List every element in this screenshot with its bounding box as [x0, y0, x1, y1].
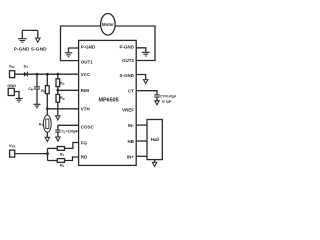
resistor R2 to RD [48, 157, 79, 168]
node junction VEX [46, 152, 49, 155]
ground S-GND arrow [136, 75, 148, 84]
terminal GND [7, 83, 22, 102]
svg-text:C1=100pF: C1=100pF [61, 130, 78, 135]
svg-text:RD: RD [81, 155, 88, 160]
ground right P-GND pin [136, 48, 150, 56]
svg-text:P-GND: P-GND [120, 44, 135, 49]
svg-text:VCC: VCC [81, 72, 91, 77]
Hall sensor block [147, 120, 162, 167]
svg-text:RB: RB [60, 96, 65, 101]
node junction on rail x37 [36, 73, 39, 76]
svg-text:FG: FG [81, 140, 88, 145]
svg-text:to 1μF: to 1μF [162, 100, 172, 104]
wire IN- to Hall [136, 124, 147, 126]
ground left P-GND pin [65, 48, 79, 57]
svg-text:OUT2: OUT2 [122, 58, 134, 63]
op-amp U1 MP6505 IC body [79, 40, 137, 165]
wire motor to OUT1 [61, 26, 101, 61]
node junction on rail x57.8 [56, 73, 59, 76]
svg-text:COSC: COSC [81, 125, 95, 130]
svg-text:GND: GND [7, 83, 16, 88]
svg-text:R2: R2 [60, 163, 65, 168]
diode D1 [24, 64, 29, 77]
svg-text:D1: D1 [24, 64, 29, 70]
wire VTH line [47, 108, 78, 110]
capacitor C1 on COSC [55, 125, 78, 141]
capacitor CT [136, 91, 176, 105]
resistor RB [56, 94, 65, 120]
svg-text:MP6505: MP6505 [99, 97, 119, 103]
resistor RM (VCC to VTH) [41, 74, 49, 109]
wire HB to Hall [136, 140, 147, 142]
wire riser FG/RD [47, 148, 49, 160]
wire VEX to resistors [15, 153, 48, 155]
svg-text:Hall: Hall [151, 137, 159, 142]
svg-text:IN-: IN- [128, 123, 135, 128]
wire VIN rail [15, 73, 79, 75]
resistor RA [56, 74, 65, 94]
node junction on rail x47.3 [46, 73, 49, 76]
wire motor to OUT2 [115, 26, 155, 61]
wire RMI line [58, 89, 79, 91]
terminal VEX [9, 143, 16, 157]
resistor R1 to FG [48, 143, 79, 158]
svg-text:VREF: VREF [122, 108, 134, 113]
svg-text:RA: RA [60, 81, 65, 86]
svg-text:VTH: VTH [81, 106, 90, 111]
svg-text:CT=0.47μF: CT=0.47μF [160, 94, 176, 98]
svg-text:P-GND S-GND: P-GND S-GND [14, 46, 47, 52]
svg-text:CIN: CIN [28, 87, 33, 92]
thermistor RT [39, 109, 51, 142]
motor M1 [101, 13, 116, 35]
node junction VTH x47.3 [46, 107, 49, 110]
capacitor CIN [28, 74, 40, 108]
svg-text:S-GND: S-GND [120, 73, 135, 78]
svg-text:HB: HB [128, 139, 135, 144]
svg-text:VIN: VIN [9, 64, 15, 70]
svg-text:Motor: Motor [102, 22, 114, 27]
svg-text:R1: R1 [60, 152, 65, 157]
svg-text:VEX: VEX [9, 143, 16, 149]
svg-text:P-GND: P-GND [81, 44, 96, 49]
node junction RMI [56, 89, 59, 92]
wire IN+ to Hall [136, 155, 147, 157]
svg-text:IN+: IN+ [127, 154, 135, 159]
svg-text:OUT1: OUT1 [81, 60, 93, 65]
terminal VIN [9, 64, 15, 78]
ground tie symbol top-left (P-GND to S-GND) [18, 30, 40, 42]
svg-text:RMI: RMI [81, 88, 89, 93]
svg-text:CT: CT [128, 89, 134, 94]
